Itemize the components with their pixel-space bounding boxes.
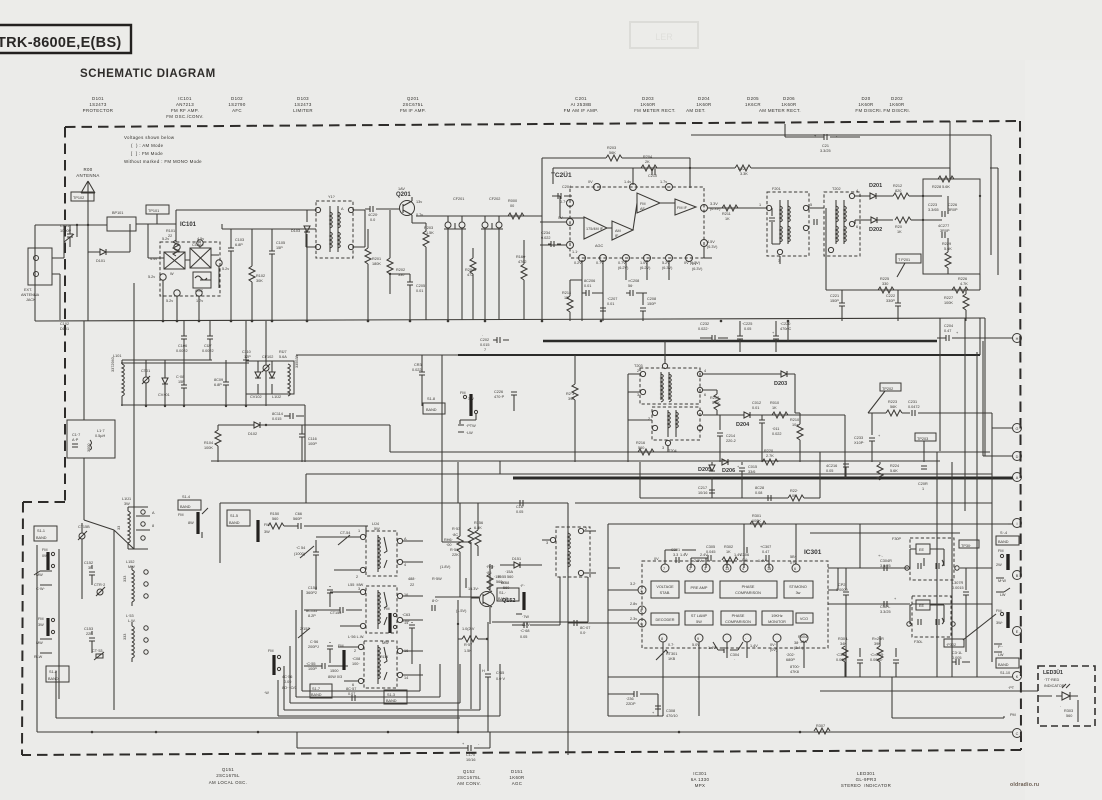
capacitor RC114 0.015 xyxy=(272,412,304,421)
capacitor C207 0.01 xyxy=(600,293,617,321)
resistor R301 100K xyxy=(750,514,766,527)
capacitor C306 xyxy=(740,547,749,568)
svg-text:R004: R004 xyxy=(798,635,807,639)
resistor R224 5.6K xyxy=(877,462,899,480)
coil L152 xyxy=(123,560,148,606)
varicap CV102 label xyxy=(250,395,281,399)
header label D102 xyxy=(228,96,245,113)
svg-text:4.5V: 4.5V xyxy=(707,240,715,244)
resistor R165 xyxy=(486,565,506,585)
svg-text:A: A xyxy=(1016,476,1019,480)
resistor R211 1K xyxy=(722,205,738,221)
svg-text:Y1?: Y1? xyxy=(328,195,335,199)
connector E xyxy=(1013,627,1022,636)
svg-text:D103: D103 xyxy=(291,229,300,233)
IC201 IF amp dashed block xyxy=(554,180,708,321)
svg-text:Q152: Q152 xyxy=(502,598,515,604)
ext antenna jack xyxy=(21,225,64,320)
svg-text:3.3/25: 3.3/25 xyxy=(880,564,891,568)
switch SI-8 band xyxy=(423,397,445,414)
svg-text:BAND: BAND xyxy=(229,521,240,525)
svg-text:0.045: 0.045 xyxy=(706,550,716,554)
right long verticals xyxy=(937,341,992,662)
svg-text:L1Ü1: L1Ü1 xyxy=(122,497,131,501)
resistor R221 xyxy=(640,489,820,501)
capacitor C209 xyxy=(918,466,928,491)
svg-text:Q201: Q201 xyxy=(396,192,411,198)
svg-text:1.7v: 1.7v xyxy=(660,180,667,184)
header label D204 xyxy=(686,96,711,113)
svg-text:470nC: 470nC xyxy=(780,327,791,331)
resistor R226 4.7K xyxy=(952,277,968,293)
resistor R202 330 xyxy=(387,210,405,294)
svg-text:8C09: 8C09 xyxy=(214,378,223,382)
svg-text:R210: R210 xyxy=(790,418,799,422)
capacitor C169 0.05 xyxy=(516,500,524,514)
wire Q152 collector xyxy=(492,565,588,622)
wire long y462 xyxy=(211,461,940,474)
svg-text:R225: R225 xyxy=(880,277,889,281)
svg-text:3.3/65: 3.3/65 xyxy=(928,208,939,212)
svg-text:·C30B: ·C30B xyxy=(836,653,847,657)
svg-text:LIMITER: LIMITER xyxy=(293,108,313,113)
svg-text:8T00·: 8T00· xyxy=(790,665,800,669)
svg-text:488·: 488· xyxy=(408,577,416,581)
svg-text:3W: 3W xyxy=(38,623,44,627)
main ground bus FM section xyxy=(35,318,985,321)
svg-text:0.0022: 0.0022 xyxy=(176,349,188,353)
svg-text:STAB.: STAB. xyxy=(660,591,671,595)
svg-text:0.015: 0.015 xyxy=(272,417,282,421)
svg-text:4C216: 4C216 xyxy=(826,464,837,468)
wire L101 bus xyxy=(121,404,305,406)
svg-text:MPX: MPX xyxy=(695,783,706,788)
capacitor C208 150P xyxy=(640,293,656,321)
svg-text:0.009·: 0.009· xyxy=(836,658,847,662)
diode D101 xyxy=(88,224,130,263)
resistor R104 100K xyxy=(204,425,221,462)
svg-text:·C·55: ·C·55 xyxy=(306,662,316,666)
switch SI-5 xyxy=(227,510,270,542)
svg-text:(6.3V): (6.3V) xyxy=(662,266,673,270)
svg-text:C3·1L: C3·1L xyxy=(952,651,962,655)
svg-text:6.8P: 6.8P xyxy=(214,383,222,387)
svg-text:100·: 100· xyxy=(352,662,360,666)
svg-text:0V·: 0V· xyxy=(770,643,776,647)
svg-text:C·65: C·65 xyxy=(496,671,504,675)
header label Q201 xyxy=(400,96,426,113)
svg-text:22: 22 xyxy=(410,583,414,587)
svg-text:LED301: LED301 xyxy=(857,771,875,776)
svg-text:6: 6 xyxy=(794,567,796,571)
svg-text:1.1·: 1.1· xyxy=(572,250,579,254)
svg-text:3w: 3w xyxy=(796,591,801,595)
svg-text:3: 3 xyxy=(546,541,548,545)
svg-text:RH6·: RH6· xyxy=(444,538,453,542)
svg-text:FM IF AMP.: FM IF AMP. xyxy=(400,108,426,113)
svg-text:·LW: ·LW xyxy=(466,431,473,435)
svg-text:C208: C208 xyxy=(647,297,656,301)
resistor R217 5.6K xyxy=(703,390,720,415)
svg-text:22DP: 22DP xyxy=(626,702,636,706)
svg-text:S1-1: S1-1 xyxy=(37,529,45,533)
capacitor C204b 0.47 xyxy=(937,324,1013,341)
svg-text:Without marked : FM MONO Mode: Without marked : FM MONO Mode xyxy=(124,159,202,164)
svg-text:BAND: BAND xyxy=(386,699,397,703)
svg-text:150P: 150P xyxy=(830,299,839,303)
diode D103 xyxy=(291,210,316,320)
svg-text:5: 5 xyxy=(810,203,812,207)
resistor R101 22 xyxy=(166,229,179,256)
svg-text:820: 820 xyxy=(895,189,901,193)
inductor L307R xyxy=(952,568,992,652)
svg-text:4762: 4762 xyxy=(518,260,526,264)
svg-text:C153: C153 xyxy=(84,627,93,631)
svg-text:2.8v: 2.8v xyxy=(630,602,637,606)
AM nested wire loops xyxy=(278,590,500,716)
connector A xyxy=(1013,473,1022,482)
svg-text:Q201: Q201 xyxy=(407,96,419,101)
svg-text:1S2473: 1S2473 xyxy=(294,102,311,107)
svg-text:560: 560 xyxy=(503,586,509,590)
svg-text:R150: R150 xyxy=(270,512,279,516)
capacitor 4C307 xyxy=(568,620,608,635)
svg-text:14: 14 xyxy=(404,676,408,680)
svg-text:1KB: 1KB xyxy=(668,657,676,661)
resistor R157 1.5K xyxy=(457,600,488,732)
svg-text:360P2: 360P2 xyxy=(306,591,317,595)
svg-text:0V: 0V xyxy=(588,180,593,184)
bottom label LED301 xyxy=(841,771,891,788)
svg-text:D103: D103 xyxy=(297,96,309,101)
svg-text:100K: 100K xyxy=(204,446,213,450)
antenna R00 xyxy=(76,167,99,225)
resistor R201 180K xyxy=(365,229,381,320)
svg-text:C170: C170 xyxy=(466,753,475,757)
capacitor RC155 CT155 xyxy=(304,607,362,618)
svg-text:0.01: 0.01 xyxy=(584,284,591,288)
svg-text:C233: C233 xyxy=(854,436,863,440)
svg-text:C204: C204 xyxy=(944,324,953,328)
long bus y732 xyxy=(980,731,1013,733)
svg-text:R224: R224 xyxy=(890,464,899,468)
svg-text:Q151: Q151 xyxy=(222,767,234,772)
svg-text:LW: LW xyxy=(1000,593,1006,597)
svg-text:56K: 56K xyxy=(890,405,897,409)
svg-text:2.3v: 2.3v xyxy=(630,617,637,621)
svg-text:TP202: TP202 xyxy=(882,387,893,391)
svg-text:0.0086·: 0.0086· xyxy=(870,658,883,662)
svg-text:C226: C226 xyxy=(948,203,957,207)
wire verticals center xyxy=(390,355,458,503)
svg-text:AFC: AFC xyxy=(232,108,242,113)
svg-text:INDICATOR: INDICATOR xyxy=(1044,684,1065,688)
svg-text:L55 MW: L55 MW xyxy=(348,583,364,587)
resistor R212 820 xyxy=(893,184,923,199)
svg-text:3.3: 3.3 xyxy=(673,553,678,557)
svg-text:13v: 13v xyxy=(416,200,422,204)
resistor R223 56K xyxy=(868,400,910,416)
svg-text:R·57: R·57 xyxy=(464,643,472,647)
svg-text:3R0P: 3R0P xyxy=(948,208,958,212)
svg-text:(2.4·): (2.4·) xyxy=(794,646,804,650)
svg-text:0.01: 0.01 xyxy=(607,302,614,306)
svg-text:1.0(2)V: 1.0(2)V xyxy=(462,627,475,631)
transformer L155 xyxy=(330,583,423,633)
svg-text:C210: C210 xyxy=(648,174,657,178)
svg-text:R228 5.6K: R228 5.6K xyxy=(932,185,950,189)
svg-text:6A 1330: 6A 1330 xyxy=(691,777,710,782)
resistor R200 xyxy=(499,199,542,219)
svg-text:C66: C66 xyxy=(295,512,302,516)
svg-text:4.7K: 4.7K xyxy=(960,282,968,286)
svg-text:K: K xyxy=(1016,675,1019,679)
svg-text:D205: D205 xyxy=(747,96,759,101)
svg-text:0.022: 0.022 xyxy=(412,368,422,372)
ceramic filter CF202 xyxy=(481,197,503,320)
svg-text:330P: 330P xyxy=(886,299,895,303)
resistor R219 10K xyxy=(790,413,803,462)
svg-text:S1-7: S1-7 xyxy=(312,687,320,691)
transistor Q201 xyxy=(390,187,423,223)
connector K xyxy=(1013,672,1022,681)
svg-text:33/6: 33/6 xyxy=(748,470,755,474)
svg-text:TP203: TP203 xyxy=(917,437,928,441)
svg-text:0.05: 0.05 xyxy=(744,327,751,331)
svg-text:1K60R: 1K60R xyxy=(696,102,711,107)
svg-text:C106: C106 xyxy=(178,344,187,348)
svg-text:0.08: 0.08 xyxy=(755,491,762,495)
capacitor RC109 6.8P xyxy=(214,360,229,406)
svg-text:0.0022: 0.0022 xyxy=(202,349,214,353)
svg-text:1.4V: 1.4V xyxy=(750,644,758,648)
diode D102 xyxy=(218,422,390,436)
svg-text:IC101: IC101 xyxy=(180,222,197,228)
svg-text:AM LOCAL OSC.: AM LOCAL OSC. xyxy=(209,780,248,785)
svg-text:BAND: BAND xyxy=(180,505,191,509)
svg-text:1K60R: 1K60R xyxy=(781,102,796,107)
filter F30P dashed xyxy=(892,537,959,580)
capacitor C226 470P xyxy=(494,389,517,411)
svg-text:8W: 8W xyxy=(188,521,194,525)
pilot filter area wires xyxy=(828,560,910,604)
wire mid row xyxy=(121,355,458,462)
svg-text:CP2: CP2 xyxy=(838,583,845,587)
svg-text:LED3Ü1: LED3Ü1 xyxy=(1043,669,1063,676)
svg-text:1K60R: 1K60R xyxy=(889,102,904,107)
svg-text:ST/MONO: ST/MONO xyxy=(789,585,807,589)
svg-text:56K: 56K xyxy=(609,151,616,155)
svg-text:2SC675L: 2SC675L xyxy=(403,102,424,107)
svg-text:(1.8V): (1.8V) xyxy=(440,565,451,569)
svg-text:( ) : AM Mode: ( ) : AM Mode xyxy=(131,143,164,148)
svg-text:R226: R226 xyxy=(958,277,967,281)
transformer F201 dashed xyxy=(759,187,812,264)
svg-text:G: G xyxy=(1016,427,1019,431)
coil L153 xyxy=(123,614,148,662)
wire antenna bus xyxy=(35,225,107,253)
svg-text:FM RF AMP.: FM RF AMP. xyxy=(171,108,199,113)
svg-text:TP102: TP102 xyxy=(73,196,84,200)
capacitor C110 12P xyxy=(242,321,251,406)
svg-text:5W: 5W xyxy=(696,620,702,624)
resistor R220 2.7K xyxy=(762,449,778,465)
svg-text:D: D xyxy=(1016,455,1019,459)
svg-text:8C206: 8C206 xyxy=(584,279,595,283)
switch FM mid contacts xyxy=(458,391,478,435)
svg-text:C: C xyxy=(1016,732,1019,736)
svg-text:2K: 2K xyxy=(645,160,650,164)
svg-text:0.05: 0.05 xyxy=(402,619,409,623)
svg-text:335538: 335538 xyxy=(295,355,299,368)
svg-text:175/4M IF: 175/4M IF xyxy=(586,227,604,231)
svg-text:CT·53: CT·53 xyxy=(92,649,103,653)
svg-text:+C307: +C307 xyxy=(760,545,771,549)
svg-text:4.5v: 4.5v xyxy=(197,237,204,241)
svg-text:C205: C205 xyxy=(416,284,425,288)
wire vertical x134 xyxy=(114,283,134,549)
capacitor C303 470/10 xyxy=(652,706,678,718)
svg-text:4: 4 xyxy=(856,189,858,193)
svg-text:100K: 100K xyxy=(752,519,761,523)
svg-text:2V: 2V xyxy=(692,262,697,266)
svg-text:2: 2 xyxy=(585,527,587,531)
AFC box C157 L157 xyxy=(67,321,115,540)
svg-text:D151: D151 xyxy=(511,769,523,774)
capacitor RC157 xyxy=(346,687,356,701)
svg-text:3.3K: 3.3K xyxy=(740,172,748,176)
svg-text:0.022: 0.022 xyxy=(541,236,551,240)
svg-text:IC101: IC101 xyxy=(178,96,192,101)
wire top bus R220 xyxy=(553,165,950,184)
svg-text:1.5K: 1.5K xyxy=(426,231,434,235)
svg-text:5.2v: 5.2v xyxy=(148,275,155,279)
wire pin8 bottom xyxy=(608,642,777,716)
svg-text:5B·: 5B· xyxy=(790,555,796,559)
potentiometer RT301 xyxy=(656,642,677,668)
svg-text:BAND: BAND xyxy=(998,540,1009,544)
MPX box bottom xyxy=(608,676,1012,678)
svg-text:C305: C305 xyxy=(706,545,715,549)
svg-text:560: 560 xyxy=(507,575,513,579)
svg-text:·C220: ·C220 xyxy=(780,322,790,326)
wire AM box right xyxy=(567,503,569,520)
svg-text:4: 4 xyxy=(404,563,406,567)
svg-text:COMPARISON: COMPARISON xyxy=(735,591,761,595)
capacitor C105 15P xyxy=(269,229,285,320)
svg-text:·: · xyxy=(734,658,735,662)
svg-text:0.0·V: 0.0·V xyxy=(496,677,506,681)
capacitor CP2 xyxy=(836,568,849,677)
faint stamp box top-center xyxy=(630,22,698,48)
svg-text:15P: 15P xyxy=(276,246,283,250)
capacitor C212 0.01 xyxy=(752,401,765,462)
svg-text:33: 33 xyxy=(117,526,121,530)
svg-text:AN7213: AN7213 xyxy=(176,102,194,107)
capacitor RC218 0.05 xyxy=(755,486,771,501)
switch SI-7 xyxy=(310,684,332,698)
svg-text:·P302: ·P302 xyxy=(946,643,956,647)
svg-text:H: H xyxy=(482,669,485,673)
switch FM left mid xyxy=(264,649,297,695)
svg-text:·C207: ·C207 xyxy=(607,297,617,301)
svg-text:(6.3V): (6.3V) xyxy=(692,267,703,271)
svg-text:H: H xyxy=(1016,337,1019,341)
svg-text:80W 0/3: 80W 0/3 xyxy=(328,675,342,679)
svg-text:R203: R203 xyxy=(607,146,616,150)
svg-text:R229: R229 xyxy=(942,242,951,246)
svg-text:100P: 100P xyxy=(308,442,317,446)
svg-text:FM: FM xyxy=(42,548,47,552)
svg-text:D101: D101 xyxy=(96,259,105,263)
trimmer CT153 xyxy=(92,649,104,660)
svg-text:CV102: CV102 xyxy=(250,395,262,399)
svg-text:R227: R227 xyxy=(944,296,953,300)
svg-text:CF202: CF202 xyxy=(489,197,500,201)
svg-text:C20R: C20R xyxy=(918,482,928,486)
svg-text:·C225: ·C225 xyxy=(742,322,752,326)
svg-text:D102: D102 xyxy=(248,432,257,436)
capacitor RC216 0.05 xyxy=(826,462,849,478)
filter F30L dashed xyxy=(907,596,955,644)
svg-text:0.47: 0.47 xyxy=(762,550,769,554)
svg-text:0.05: 0.05 xyxy=(520,635,527,639)
svg-text:C103: C103 xyxy=(235,238,244,242)
svg-text:560P: 560P xyxy=(293,517,302,521)
header label D203 xyxy=(634,96,676,113)
svg-text:1K: 1K xyxy=(725,217,730,221)
svg-text:56·: 56· xyxy=(628,284,634,288)
svg-text:R301: R301 xyxy=(752,514,761,518)
svg-text:·: · xyxy=(1060,705,1061,709)
capacitor C221 150P xyxy=(830,290,845,321)
switch SI-6b xyxy=(497,584,530,627)
wire long y474 xyxy=(306,474,992,503)
svg-text:C234: C234 xyxy=(541,231,550,235)
resistor R213b 39K xyxy=(566,355,578,462)
capacitor C30B xyxy=(836,648,863,677)
svg-text:560: 560 xyxy=(496,580,502,584)
capacitor C220 470nC xyxy=(772,321,791,352)
svg-text:TRK-8600E,E(BS): TRK-8600E,E(BS) xyxy=(0,35,122,51)
connector B xyxy=(1013,571,1022,580)
svg-text:Q152: Q152 xyxy=(463,769,475,774)
svg-text:+·-: +·- xyxy=(878,554,883,558)
header label D206 xyxy=(781,96,796,107)
svg-text:2.7K: 2.7K xyxy=(766,454,774,458)
svg-text:1: 1 xyxy=(358,529,360,533)
svg-text:T202: T202 xyxy=(832,187,841,191)
svg-text:VOLTAGE: VOLTAGE xyxy=(656,585,674,589)
svg-text:5W: 5W xyxy=(374,527,380,531)
svg-text:8·0·: 8·0· xyxy=(432,599,439,603)
svg-text:T204: T204 xyxy=(668,449,677,453)
svg-text:FM: FM xyxy=(998,549,1003,553)
transformer L154 xyxy=(316,522,423,579)
svg-text:AM: AM xyxy=(615,229,621,233)
switch contacts FM1 xyxy=(34,548,55,591)
svg-text:8: 8 xyxy=(661,637,663,641)
svg-text:C222: C222 xyxy=(886,294,895,298)
svg-text:R104: R104 xyxy=(204,441,213,445)
switch SI-2 xyxy=(46,666,69,682)
svg-text:D101: D101 xyxy=(92,96,104,101)
svg-text:0.7·: 0.7· xyxy=(560,200,567,204)
svg-text:C102: C102 xyxy=(60,322,69,326)
svg-text:C152: C152 xyxy=(84,561,93,565)
diode D205 xyxy=(698,462,715,498)
switch SI-4 xyxy=(178,495,208,538)
